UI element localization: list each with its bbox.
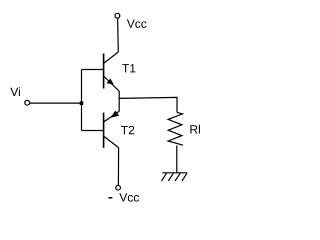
transistor T2 collector <box>104 137 119 148</box>
wire to T1 base <box>82 69 104 71</box>
label Rl <box>190 125 200 134</box>
wire input Vi to base node <box>30 102 82 104</box>
junction dot input node <box>80 101 84 105</box>
transistor T2 (PNP) base bar <box>103 113 105 148</box>
terminal +Vcc <box>115 13 120 18</box>
label T1 <box>122 64 135 72</box>
label Vcc (bottom) <box>119 193 139 201</box>
transistor T1 emitter arrow <box>107 79 114 85</box>
label Vcc (top) <box>127 20 147 28</box>
wire to T2 base <box>82 130 104 132</box>
label T2 <box>121 126 134 134</box>
wire Vcc terminal to T1 collector <box>117 18 120 52</box>
wire base bus vertical <box>81 70 83 131</box>
transistor T1 (NPN) base bar <box>103 54 105 89</box>
label - (bottom) <box>108 197 112 199</box>
label Vi <box>10 87 20 96</box>
resistor Rl zigzag <box>168 112 183 145</box>
ground <box>162 173 188 181</box>
wire output node to resistor <box>119 97 177 112</box>
transistor T2 emitter <box>104 111 119 122</box>
terminal -Vcc <box>116 185 121 190</box>
wire resistor to ground <box>176 145 178 173</box>
transistor T1 collector <box>104 52 118 63</box>
transistor T1 emitter <box>104 77 119 92</box>
wire T1 emitter to output node <box>118 91 120 112</box>
transistor T2 emitter arrow <box>111 111 120 118</box>
terminal Vi <box>25 100 30 105</box>
wire T2 collector to -Vcc terminal <box>117 148 119 186</box>
